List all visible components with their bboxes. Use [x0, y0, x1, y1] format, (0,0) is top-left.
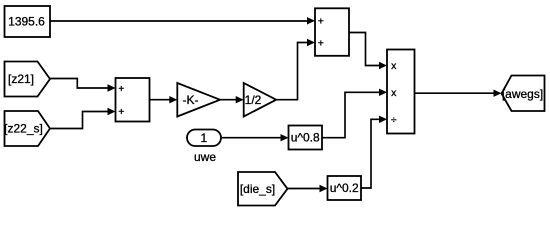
wire: Sum1 output to gain -K- [150, 96, 178, 103]
sum block Sum2 [315, 8, 349, 56]
svg-text:1/2: 1/2 [245, 93, 262, 107]
svg-text:+: + [318, 37, 324, 49]
svg-text:[awegs]: [awegs] [502, 87, 543, 101]
svg-text:-K-: -K- [183, 93, 199, 107]
svg-text:+: + [118, 83, 124, 95]
wire: constant 1 to u^0.8 [221, 134, 289, 141]
svg-text:1395.6: 1395.6 [8, 15, 45, 29]
From block [z21] [5, 62, 51, 97]
wire: u^0.2 to Product input 3 [361, 116, 387, 188]
wire: [die_s] to u^0.2 [288, 185, 328, 192]
svg-text:÷: ÷ [391, 114, 397, 126]
constant block 1 (uwe) [187, 130, 221, 147]
svg-text:[z22_s]: [z22_s] [4, 121, 43, 135]
wire: 1395.6 output to Sum2 input 1 [50, 17, 315, 24]
svg-text:u^0.2: u^0.2 [330, 181, 359, 195]
svg-text:u^0.8: u^0.8 [291, 131, 320, 145]
svg-text:[z21]: [z21] [8, 72, 34, 86]
svg-text:x: x [391, 87, 397, 99]
wire: u^0.8 to Product input 2 [322, 89, 387, 138]
constant block 1395.6 [5, 6, 51, 37]
wire: gain 1/2 to Sum2 input 2 [276, 39, 315, 100]
wire: [z21] to Sum1 input 1 [50, 79, 116, 92]
svg-text:uwe: uwe [194, 150, 216, 164]
From block [die_s] [238, 172, 288, 206]
svg-text:[die_s]: [die_s] [240, 182, 275, 196]
wire: Sum2 output to Product input 1 [349, 33, 387, 70]
sum block Sum1 [116, 78, 150, 122]
svg-text:+: + [118, 106, 124, 118]
From block [z22_s] [4, 111, 50, 146]
svg-text:+: + [318, 15, 324, 27]
math function block u^0.2 [328, 176, 362, 200]
wire: Product output to [awegs] [415, 90, 502, 97]
gain block -K- [177, 83, 220, 117]
svg-text:x: x [391, 60, 397, 72]
svg-text:1: 1 [200, 131, 207, 145]
product block Product [387, 50, 415, 134]
wire: gain -K- to gain 1/2 [220, 96, 244, 103]
gain block 1/2 [244, 83, 277, 117]
Goto block [awegs] [502, 76, 545, 112]
math function block u^0.8 [289, 126, 323, 150]
wire: [z22_s] to Sum1 input 2 [50, 108, 116, 129]
